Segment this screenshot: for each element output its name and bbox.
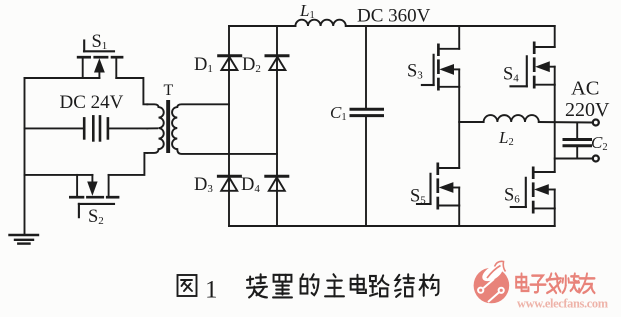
transistor S6: [504, 167, 555, 214]
wire top rail DC 360V: [346, 25, 555, 27]
caption: figure number 图 1: [178, 275, 197, 296]
inductor L1: [295, 20, 345, 26]
char 友: [580, 274, 595, 293]
node AC terminal bottom: [593, 156, 599, 162]
wire S6 body tie: [554, 190, 556, 209]
transistor S2: [69, 175, 119, 227]
svg-text:AC: AC: [571, 78, 599, 100]
wire S2 source row: [25, 174, 93, 176]
wire inverter right leg top: [554, 26, 556, 47]
wire primary center tap: [147, 127, 157, 129]
diode D1: [194, 55, 241, 75]
wire left leg to L2: [459, 121, 483, 123]
wire inverter left leg top: [458, 26, 460, 49]
wire inverter left leg mid: [458, 87, 460, 168]
diode D3: [194, 175, 240, 195]
svg-text:DC 360V: DC 360V: [357, 6, 431, 27]
watermark text 电子发烧友: [516, 274, 594, 293]
wire top rail left of L1: [229, 25, 295, 27]
wire S2 drain to transformer: [109, 153, 148, 175]
transformer T core: [166, 100, 170, 153]
char 路: [370, 275, 388, 296]
char 烧: [563, 274, 580, 293]
transformer T primary winding: [147, 104, 163, 153]
svg-text:T: T: [164, 82, 174, 99]
wire S3 body tie: [458, 69, 460, 86]
char 子: [531, 276, 546, 293]
transistor S1: [77, 32, 124, 78]
wire S1 drain to transformer: [116, 78, 147, 104]
watermark logo elecfans: [474, 261, 510, 303]
char 的: [301, 274, 319, 295]
capacitor C2: [564, 123, 608, 159]
transistor S5: [410, 163, 459, 210]
caption text 装置的主电路结构 (drawn strokes): [247, 274, 438, 297]
char 发: [547, 274, 561, 293]
wire S5 body tie: [458, 188, 460, 206]
wire bridge right rail: [276, 26, 278, 226]
wire bridge left rail: [228, 26, 230, 226]
node AC terminal top: [593, 120, 599, 126]
transistor S4: [503, 42, 555, 89]
wire inverter right leg mid: [554, 85, 556, 172]
wire left rail: [24, 78, 26, 234]
inductor L2: [484, 115, 539, 122]
wire S5 source to bottom rail: [458, 206, 460, 227]
char 置: [273, 275, 292, 298]
svg-text:www.elecfans.com: www.elecfans.com: [517, 297, 609, 311]
wire L2 to AC terminal: [539, 121, 593, 124]
wire S1 source row: [25, 77, 100, 79]
char 电: [351, 275, 366, 293]
diode D2: [242, 55, 288, 75]
diode D4: [241, 175, 288, 195]
transistor S3: [407, 44, 459, 91]
battery DC 24V: [25, 92, 148, 140]
svg-text:DC 24V: DC 24V: [60, 92, 124, 113]
ground: [10, 235, 39, 244]
char 装: [247, 274, 267, 297]
capacitor C1: [330, 26, 383, 226]
svg-text:220V: 220V: [565, 99, 610, 121]
svg-text:1: 1: [205, 277, 218, 304]
char 构: [420, 274, 439, 295]
char 电: [516, 274, 528, 291]
transformer T secondary winding: [172, 104, 277, 154]
wire right leg to AC bottom: [555, 158, 593, 160]
wire S4 body tie: [554, 67, 556, 85]
wire S6 source to bottom rail: [554, 208, 556, 226]
wire bottom rail: [229, 225, 555, 227]
char 结: [395, 274, 414, 297]
char 主: [325, 274, 344, 296]
